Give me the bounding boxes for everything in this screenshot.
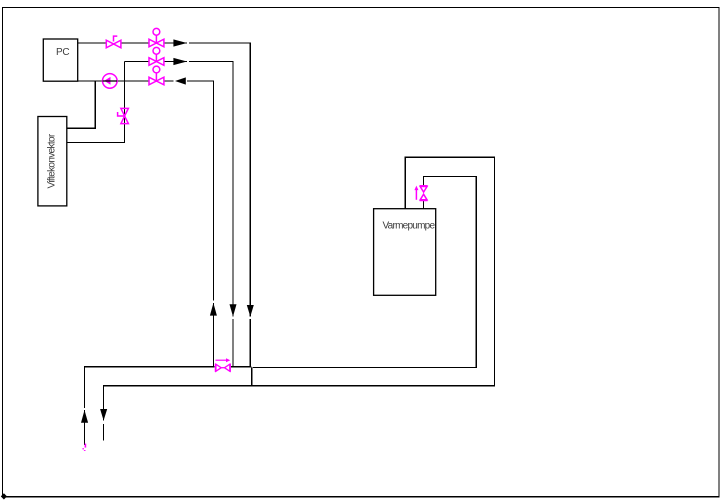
wire line1 PC to valve V1 (78, 42, 107, 44)
arrow down on return drop leg (100, 409, 107, 421)
wire line2 arrow to corner then down to arrow gap (189, 62, 233, 317)
wire line3 MV3 to arrow tip (164, 80, 174, 82)
wire supply leg below arrow (84, 410, 86, 445)
pump P1 (103, 74, 118, 89)
wire line1 V1 to motor valve MV1 (121, 42, 149, 44)
arrow down on line2 vertical (230, 304, 237, 316)
wire line2 MV2 to arrow (164, 61, 187, 63)
wire line3 arrow to corner then down to arrow (187, 81, 213, 301)
svg-text:Varmepumpe: Varmepumpe (383, 220, 436, 231)
svg-text:PC: PC (56, 47, 69, 58)
magenta symbols (83, 28, 427, 451)
arrow left flow line3 (175, 77, 186, 84)
wire line3 PC bottom to MV3 (78, 80, 149, 82)
valve V1 manual, line1 (106, 36, 121, 48)
wire line2 corner down through hand valve to konvektor (67, 62, 125, 143)
box PC (43, 39, 77, 81)
wire overlay through pump (103, 80, 118, 82)
wire return leg below arrow gap (103, 424, 105, 441)
wire line2 below arrow to hline1 (232, 319, 234, 367)
motor valve MV3 line3 (149, 66, 164, 85)
wires: black piping (67, 43, 495, 445)
arrow right flow line2 (173, 58, 187, 65)
wire inner loop below check valve to pump box (423, 201, 425, 209)
hand valve V2 vertical (118, 108, 129, 123)
arrow up on line3 vertical (210, 303, 217, 316)
box Viftekonvektor (38, 117, 67, 206)
wire line3 below arrow gap to hline1 (212, 303, 214, 368)
box Varmepumpe (374, 209, 436, 296)
motor valve MV1 line1 (149, 28, 164, 46)
motor valve MV2 line2 (149, 47, 164, 65)
corner tick bottom-left (1, 493, 7, 499)
wire line1 MV1 to arrow (164, 42, 187, 44)
wire line1 jog at crossing (250, 366, 251, 386)
wire line1 arrow to corner, down to cross jog (189, 43, 250, 316)
arrow right flow line1 (173, 39, 187, 46)
wire hline1 mid segment (231, 366, 250, 368)
check valve CV2 vertical with flow arrow (414, 186, 427, 201)
wire line3 branch down to konvektor top port (67, 81, 95, 128)
arrow down on line1 vertical (247, 305, 254, 317)
wire line1 vertical below arrow gap to jog (249, 319, 251, 366)
wire hline1 right segment to inner loop (252, 176, 476, 367)
wire hline1 left segment (85, 367, 215, 408)
wire hline2 and outer loop (104, 157, 495, 420)
svg-text:Viftekonvektor: Viftekonvektor (47, 133, 58, 188)
wire line2 corner to MV2 (125, 61, 149, 63)
connection mark at supply leg end (83, 444, 85, 451)
arrow up on supply drop leg (81, 410, 88, 423)
check valve CV1 horizontal with flow arrow (215, 358, 230, 372)
